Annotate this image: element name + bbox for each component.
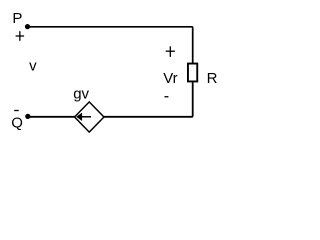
wire dependent source to node Q (bottom left horizontal) (28, 116, 75, 118)
dependent current source gv (diamond body) (75, 102, 104, 132)
svg-text:v: v (29, 58, 37, 75)
minus polarity marker for Vr (165, 96, 169, 98)
svg-text:P: P (12, 10, 22, 27)
plus polarity marker for Vr (166, 46, 175, 57)
arrow inside source (current direction, pointing left) (76, 113, 91, 121)
wire resistor R to dependent source (right vertical and bottom horizontal) (104, 82, 193, 116)
svg-text:Vr: Vr (163, 70, 177, 87)
svg-text:gv: gv (73, 85, 89, 102)
minus polarity marker at node Q (14, 110, 19, 112)
svg-text:R: R (207, 70, 218, 87)
node Q (junction dot) (25, 114, 30, 119)
svg-text:Q: Q (11, 114, 23, 131)
wire node P to resistor R (top horizontal and right vertical) (28, 27, 193, 64)
resistor R (rectangle body) (188, 64, 197, 82)
node P (junction dot) (25, 24, 30, 29)
plus polarity marker at node P (16, 31, 25, 41)
